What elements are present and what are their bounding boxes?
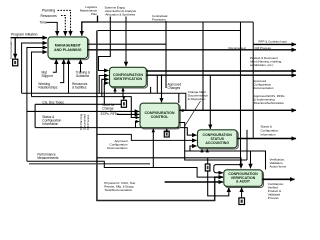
wire Training & Guidance mechanism bbox=[80, 59, 82, 72]
wire y151 extension to CVA top right bbox=[251, 151, 266, 170]
wire CSA top drop bbox=[209, 75, 211, 129]
box M&P shadow bbox=[49, 38, 89, 60]
svg-text:Changes: Changes bbox=[168, 86, 181, 90]
svg-text:serialization, etc.): serialization, etc.) bbox=[250, 63, 273, 67]
svg-text:Documentation: Documentation bbox=[107, 146, 128, 150]
wire long top horizontal y22 bbox=[82, 21, 253, 23]
svg-text:Plan: Plan bbox=[91, 12, 97, 16]
wire dashed Planning control bbox=[58, 10, 71, 35]
wire vertical control x242.7 to CVA top bbox=[240, 22, 242, 151]
wire bus5 performance to CVA left y174 bbox=[27, 161, 223, 177]
wire box D loop to CVA bottom bbox=[208, 170, 229, 196]
wire approved changes drop into CC top bbox=[161, 74, 163, 76]
svg-text:Direction/Authorization: Direction/Authorization bbox=[254, 101, 285, 105]
wire branch down to communication box bbox=[14, 38, 16, 59]
wire long horizontal y30.5 to RFP elbow bbox=[98, 30, 241, 32]
box CVA shadow bbox=[225, 171, 264, 188]
svg-text:Provisions: Provisions bbox=[152, 17, 166, 21]
wire control to CVA top via y156 bbox=[97, 158, 241, 169]
svg-text:Documented: Documented bbox=[229, 46, 246, 50]
icon box E under CVA bbox=[239, 198, 245, 205]
svg-text:ACCOUNTING: ACCOUNTING bbox=[205, 141, 229, 145]
wire CC bottom mechanism arrows bbox=[152, 129, 154, 168]
wire 4th CC left arrow bbox=[136, 122, 140, 128]
wire Systems Engrg vertical to CI left jog bbox=[99, 17, 111, 71]
wire M&P top output bbox=[88, 43, 166, 45]
svg-text:& Disposition: & Disposition bbox=[188, 97, 206, 101]
icon box communication bbox=[13, 59, 18, 66]
wire short vertical x178.8 bbox=[178, 93, 180, 103]
box CONFIGURATION VERIFICATION & AUDIT bbox=[224, 170, 262, 187]
wire bus4 y127.6 to CSA left bbox=[35, 128, 197, 136]
wire Documented CM Process arrow bbox=[88, 49, 296, 51]
svg-text:CM Process: CM Process bbox=[255, 46, 272, 50]
wire CSA output Status & Configuration Information bbox=[237, 138, 296, 140]
svg-text:RFP & Contract Input: RFP & Contract Input bbox=[259, 39, 288, 43]
wire CI mechanism riser y79.3 bbox=[102, 79, 109, 96]
wire parallel line y160 bbox=[185, 151, 247, 160]
box CI shadow bbox=[111, 69, 148, 89]
svg-text:Relationships: Relationships bbox=[38, 86, 58, 90]
wire feedback riser into M&P left y52 bbox=[32, 52, 48, 97]
svg-text:Process: Process bbox=[268, 196, 279, 200]
wire Program Initiation input bbox=[11, 37, 48, 39]
wire Logistics plan elbow into M&P top bbox=[82, 16, 98, 36]
svg-text:Resources: Resources bbox=[41, 14, 58, 18]
svg-text:Guidance: Guidance bbox=[76, 74, 90, 78]
svg-text:Program Initiation: Program Initiation bbox=[11, 33, 38, 37]
svg-text:-Allocation & Synthesis: -Allocation & Synthesis bbox=[105, 12, 136, 16]
wire Contractual Provisions vertical bbox=[165, 21, 167, 88]
svg-text:Information: Information bbox=[42, 122, 58, 126]
wire ECPs RFDs input bbox=[117, 113, 139, 115]
svg-text:Support: Support bbox=[42, 74, 53, 78]
svg-text:CIs, Doc Types: CIs, Doc Types bbox=[42, 100, 64, 104]
box CONFIGURATION IDENTIFICATION bbox=[110, 67, 147, 87]
wire CC output Approved ECPs bbox=[179, 109, 296, 111]
svg-text:& facilities: & facilities bbox=[72, 86, 87, 90]
wire CI mechanism riser y75.5 bbox=[99, 76, 108, 94]
wire diagonal leader bbox=[185, 101, 201, 126]
box MANAGEMENT AND PLANNING bbox=[48, 37, 88, 59]
wire bus1 y93.3 into CC right bbox=[22, 93, 186, 110]
box CC shadow bbox=[141, 104, 180, 128]
wire Need for Change input bbox=[27, 110, 139, 112]
wire dashed Resources control bbox=[61, 16, 65, 36]
svg-text:Planning: Planning bbox=[42, 9, 55, 13]
wire CI output Approved Configuration Documentation bbox=[146, 74, 296, 76]
wire CC right to CSA bottom bracket and CVA top bbox=[179, 123, 251, 169]
wire Time control bbox=[47, 22, 58, 35]
wire left rect edge bbox=[34, 104, 36, 127]
wire Working Relationships mechanism bbox=[60, 59, 64, 82]
svg-text:CONTROL: CONTROL bbox=[151, 115, 170, 119]
wire bus3 CIs Doc Types bbox=[35, 103, 121, 105]
svg-text:Tools/Documentation: Tools/Documentation bbox=[104, 188, 132, 192]
box CONFIGURATION CONTROL bbox=[140, 103, 179, 128]
svg-text:Time: Time bbox=[40, 21, 48, 25]
svg-text:Change: Change bbox=[102, 107, 113, 111]
svg-text:Action Items: Action Items bbox=[270, 164, 287, 168]
wire thick CM process bus down left of CI bbox=[97, 31, 223, 201]
wire RFP & Contract Input arrow bbox=[252, 22, 254, 138]
wire feedback riser into M&P left y47.5 bbox=[27, 48, 47, 162]
box CONFIGURATION STATUS ACCOUNTING bbox=[198, 130, 238, 148]
wire feedback riser into M&P left y43 bbox=[22, 43, 47, 93]
wire Mgt Support mechanism bbox=[53, 59, 57, 72]
icon box B bbox=[123, 97, 125, 100]
wire Systems Engrg vertical to CI top bbox=[125, 17, 127, 67]
svg-text:AND PLANNING: AND PLANNING bbox=[54, 48, 82, 52]
box CSA shadow bbox=[199, 131, 239, 149]
wire Physical CI input to CVA bbox=[165, 181, 223, 183]
svg-text:Measurements: Measurements bbox=[37, 156, 58, 160]
wire performance box shadow line bbox=[29, 163, 150, 165]
wire thick bus branch to CSA left y140.4 bbox=[97, 134, 197, 140]
svg-text:ECPs, RFDs: ECPs, RFDs bbox=[101, 112, 119, 116]
wire CI bottom loop to CC right bbox=[150, 87, 152, 94]
wire third CSA left arrow bbox=[190, 146, 197, 151]
svg-text:Documentation: Documentation bbox=[253, 86, 274, 90]
wire CVA output Confidence bbox=[262, 178, 294, 180]
icon box D bbox=[207, 158, 209, 164]
wire CI bottom mechanism arrows bbox=[114, 88, 116, 94]
svg-text:& AUDIT: & AUDIT bbox=[236, 179, 251, 183]
wire vertical control x203 to CSA top bbox=[202, 22, 204, 110]
icon box C under CC bbox=[164, 131, 169, 137]
svg-text:Communication: Communication bbox=[9, 39, 13, 59]
svg-text:Information: Information bbox=[261, 133, 276, 137]
wire CI mechanism riser y83 bbox=[104, 83, 108, 104]
wire CI output Product & Document Ident bbox=[146, 70, 296, 72]
wire Resources & facilities mechanism bbox=[68, 59, 70, 93]
wire bus2 y96.6 to CC left riser bbox=[32, 97, 140, 118]
wire rounded loop into CVA left bbox=[214, 151, 241, 173]
svg-text:IDENTIFICATION: IDENTIFICATION bbox=[114, 77, 143, 81]
